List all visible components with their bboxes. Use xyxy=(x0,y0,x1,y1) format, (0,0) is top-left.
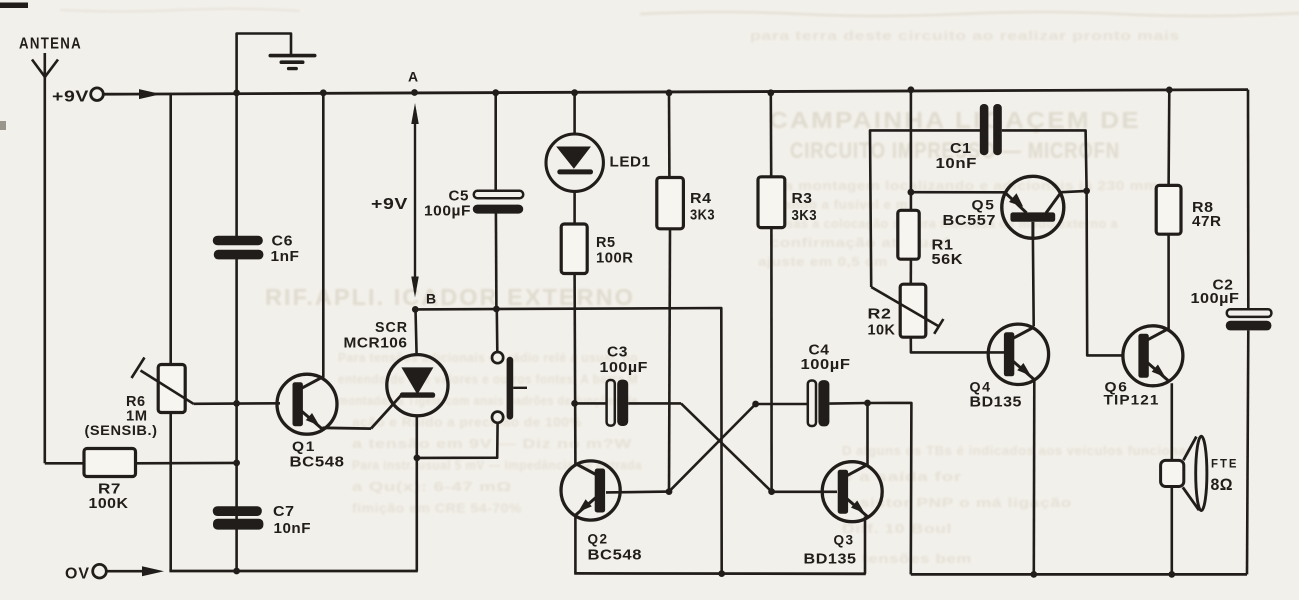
svg-text:tensões bem: tensões bem xyxy=(862,551,972,566)
svg-text:BC548: BC548 xyxy=(290,455,345,471)
svg-text:MCR106: MCR106 xyxy=(344,336,408,352)
svg-text:B: B xyxy=(426,291,437,307)
svg-text:10nF: 10nF xyxy=(936,156,978,172)
svg-text:C7: C7 xyxy=(273,504,295,520)
svg-text:3K3: 3K3 xyxy=(792,207,818,224)
svg-text:para terra deste circuito ao r: para terra deste circuito ao realizar pr… xyxy=(750,29,1180,43)
svg-text:100µF: 100µF xyxy=(1191,291,1240,307)
svg-text:R3: R3 xyxy=(792,190,813,207)
svg-text:BC557: BC557 xyxy=(943,213,997,229)
svg-text:1nF: 1nF xyxy=(271,249,300,265)
svg-text:100µF: 100µF xyxy=(600,360,649,376)
svg-text:C5: C5 xyxy=(449,188,470,204)
svg-text:R4: R4 xyxy=(690,190,712,207)
svg-text:e a saída for: e a saída for xyxy=(842,469,962,484)
svg-text:C4: C4 xyxy=(809,342,830,358)
svg-text:a Qu(x): 6-47 mΩ: a Qu(x): 6-47 mΩ xyxy=(352,479,512,494)
svg-text:Diff. 10 Boul: Diff. 10 Boul xyxy=(842,521,952,536)
svg-text:TIP121: TIP121 xyxy=(1104,392,1160,408)
svg-text:3K3: 3K3 xyxy=(690,207,715,224)
svg-text:8Ω: 8Ω xyxy=(1211,475,1234,494)
svg-text:Para tensões adicionais de rád: Para tensões adicionais de rádio relé a … xyxy=(338,350,638,365)
svg-text:fimição em CRE 54-70%: fimição em CRE 54-70% xyxy=(352,501,522,516)
svg-text:SCR: SCR xyxy=(375,320,408,336)
svg-text:(SENSIB.): (SENSIB.) xyxy=(85,423,158,438)
svg-text:C1: C1 xyxy=(950,141,972,157)
svg-text:+9V: +9V xyxy=(52,89,89,106)
svg-text:BC548: BC548 xyxy=(588,548,643,564)
svg-text:R5: R5 xyxy=(596,235,616,251)
svg-text:ajuste em 0,5 cm: ajuste em 0,5 cm xyxy=(758,255,888,269)
svg-text:R2: R2 xyxy=(868,305,892,322)
svg-text:RIF.APLI. ICADOR EXTERNO: RIF.APLI. ICADOR EXTERNO xyxy=(265,284,635,310)
svg-text:Q4: Q4 xyxy=(970,378,992,394)
svg-text:100µF: 100µF xyxy=(801,357,851,373)
svg-text:10nF: 10nF xyxy=(274,521,312,537)
svg-text:ação e Ruído a precisão de 100: ação e Ruído a precisão de 100% xyxy=(352,415,582,430)
svg-text:100K: 100K xyxy=(89,495,129,512)
svg-text:10K: 10K xyxy=(868,322,896,339)
svg-text:Q1: Q1 xyxy=(292,438,316,454)
svg-text:+9V: +9V xyxy=(371,196,408,213)
svg-text:Q3: Q3 xyxy=(834,531,855,547)
svg-text:montadas a Tigela com anais pa: montadas a Tigela com anais padrões de f… xyxy=(338,393,638,408)
svg-text:Para montagem localizando e ad: Para montagem localizando e adicionais j… xyxy=(758,179,1158,193)
svg-text:LED1: LED1 xyxy=(610,155,651,171)
svg-text:ANTENA: ANTENA xyxy=(19,36,82,53)
svg-text:BD135: BD135 xyxy=(970,394,1023,410)
svg-text:A: A xyxy=(408,69,419,85)
svg-text:BD135: BD135 xyxy=(804,552,857,568)
svg-text:D alguns os TBs é indicados ao: D alguns os TBs é indicados aos veículos… xyxy=(842,443,1192,458)
svg-text:FTE: FTE xyxy=(1211,458,1239,470)
svg-text:confirmação atenuad: confirmação atenuad xyxy=(770,236,950,250)
svg-text:Q2: Q2 xyxy=(588,530,609,546)
svg-text:Q5: Q5 xyxy=(972,197,996,213)
svg-text:56K: 56K xyxy=(932,251,964,268)
svg-text:100µF: 100µF xyxy=(424,203,471,219)
svg-text:C6: C6 xyxy=(272,234,294,250)
svg-text:a tensão em 9V — Diz no m?W: a tensão em 9V — Diz no m?W xyxy=(352,436,632,451)
svg-text:47R: 47R xyxy=(1192,213,1222,230)
svg-text:C3: C3 xyxy=(607,344,628,360)
svg-text:OV: OV xyxy=(65,566,90,583)
svg-text:entendo de que valores e outro: entendo de que valores e outros fontes. … xyxy=(338,372,638,387)
svg-text:100R: 100R xyxy=(596,250,634,266)
